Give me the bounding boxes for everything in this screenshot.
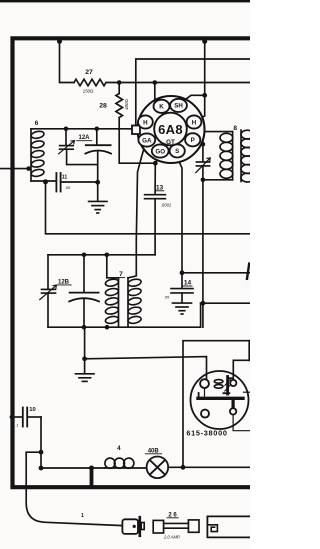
wire: coil top bus to grid cap xyxy=(31,128,132,130)
tube pin K xyxy=(154,100,170,113)
svg-text:SH: SH xyxy=(174,103,183,110)
wire: heater feed from frame xyxy=(204,40,206,95)
wire: antenna tap from left edge xyxy=(0,168,29,170)
svg-text:K: K xyxy=(159,104,164,111)
contact bar xyxy=(198,397,243,400)
pin labels xyxy=(142,103,197,156)
fuse F1 (26, 2.0 AMP) xyxy=(153,520,199,533)
wire: grid-cap line (to right edge) xyxy=(136,59,250,126)
bus: thick chassis frame (B+/heater bus) xyxy=(13,38,251,487)
tube pin SH xyxy=(170,99,187,112)
resistor R28 xyxy=(116,83,123,118)
contact bracket xyxy=(223,377,232,395)
connector: line cord plug xyxy=(122,517,144,536)
svg-text:P: P xyxy=(191,137,195,144)
node: connection tick at right edge xyxy=(247,264,249,279)
wire: oscillator bottom bus xyxy=(48,303,201,327)
wire: coil bottom to C11 xyxy=(31,180,56,182)
resistor R27 (27, 150 ohm) xyxy=(74,79,119,86)
node: C10 at chassis frame xyxy=(10,415,14,419)
IF transformer T8 secondary xyxy=(241,130,254,182)
svg-text:27: 27 xyxy=(85,69,93,76)
tube inner circle xyxy=(154,113,187,146)
ground (osc bus) xyxy=(76,359,95,382)
svg-text:6: 6 xyxy=(35,120,39,127)
wire: GA pin to oscillator coil xyxy=(136,146,145,276)
svg-text:10: 10 xyxy=(29,407,35,413)
tube pin H right xyxy=(187,115,202,128)
svg-text:8: 8 xyxy=(233,125,237,132)
tube pin H left xyxy=(138,115,153,128)
svg-text:H: H xyxy=(143,119,148,126)
coil (osc unit) xyxy=(214,380,223,384)
variable capacitor: tuning gang section A xyxy=(85,129,111,183)
tube pin GA xyxy=(138,133,155,146)
svg-text:.05: .05 xyxy=(65,185,71,190)
capacitor C10 xyxy=(12,408,41,427)
svg-text:1: 1 xyxy=(81,513,84,519)
wire: lamp to right edge xyxy=(168,466,250,468)
wire: right edge link xyxy=(248,341,250,361)
svg-text:.05: .05 xyxy=(164,295,170,300)
wire: screen feed to right edge xyxy=(201,302,250,304)
IF transformer T8 primary xyxy=(203,132,233,180)
svg-text:4: 4 xyxy=(117,445,121,452)
socket unit 615-38000 outline xyxy=(191,371,249,429)
inductor L7 oscillator coil (left winding) xyxy=(105,255,119,327)
svg-text:615-38000: 615-38000 xyxy=(186,429,227,438)
inductor L7 oscillator coil (right winding) xyxy=(127,276,141,327)
capacitor C13 (.0001) xyxy=(145,195,166,255)
svg-text:GO: GO xyxy=(155,148,165,155)
wire: to H pin (right) xyxy=(199,95,205,119)
socket pin C xyxy=(230,408,236,414)
wire: line cord lead xyxy=(26,452,122,525)
trimmer capacitor C12A xyxy=(59,129,98,165)
wire: C10 to heater line xyxy=(40,417,42,468)
svg-text:H: H xyxy=(192,119,197,126)
wire: socket stub right xyxy=(244,391,251,393)
tube pin GO xyxy=(152,144,169,157)
capacitor C11 (.05) xyxy=(56,173,97,192)
wire: thick stub to chassis frame xyxy=(90,468,94,487)
svg-text:GA: GA xyxy=(142,137,152,144)
wire: grid line to K pin xyxy=(155,83,158,103)
svg-text:28: 28 xyxy=(99,103,107,110)
wire: top page edge xyxy=(0,0,250,2)
svg-text:6A8: 6A8 xyxy=(158,122,183,137)
svg-text:13: 13 xyxy=(156,184,164,191)
wire: to SH pin xyxy=(183,95,205,101)
wire: right edge down to lamp line xyxy=(183,341,250,468)
wire: choke to lamp xyxy=(105,467,147,469)
svg-text:11: 11 xyxy=(62,175,68,181)
socket pin D xyxy=(201,410,209,418)
inductor L4 (hash choke) xyxy=(105,458,134,468)
ground (C14) xyxy=(173,303,192,314)
wire: right edge into socket pin B xyxy=(233,360,250,380)
capacitor C14 (.05) xyxy=(171,273,193,303)
trimmer capacitor C12B (padder) xyxy=(40,255,57,327)
wire: P pin to IFT xyxy=(199,141,203,143)
wire: R28 bottom to GO lead xyxy=(119,118,155,164)
tube pin S xyxy=(170,144,185,157)
svg-text:.0001: .0001 xyxy=(161,203,171,208)
ground (tuned circuit) xyxy=(89,182,107,213)
svg-text:S: S xyxy=(175,148,179,155)
wire: mixer grid line to right edge xyxy=(119,82,250,84)
svg-text:.1: .1 xyxy=(15,423,18,428)
wire: socket pin C to right edge xyxy=(233,415,250,431)
svg-text:400Ω: 400Ω xyxy=(124,99,129,110)
wire: ground node to socket unit xyxy=(85,357,207,379)
lamp 40B (pilot light) xyxy=(147,457,169,479)
wire: heater line to choke xyxy=(41,467,105,469)
tube V1 6A8 envelope xyxy=(138,96,205,163)
variable capacitor: tuning gang section B xyxy=(69,255,99,327)
wire: GO pin to C13 xyxy=(155,157,159,195)
svg-text:12A: 12A xyxy=(78,135,90,141)
wire: osc bus ground tap xyxy=(84,327,86,359)
wire: S pin (screen) lead xyxy=(177,157,182,273)
contact post xyxy=(232,400,235,408)
svg-text:GT: GT xyxy=(166,139,175,146)
connector: interlock receptacle xyxy=(207,516,250,537)
socket pin A xyxy=(200,379,209,388)
wire: screen bypass node to right edge xyxy=(182,272,250,274)
svg-text:150Ω: 150Ω xyxy=(83,89,94,94)
trimmer capacitor (IFT primary) xyxy=(196,132,210,328)
wire: border to R27 xyxy=(60,40,75,82)
tube pin P xyxy=(185,133,200,146)
grid cap terminal xyxy=(132,126,140,135)
wire: AVC bus (C11 node down and right) xyxy=(46,182,251,234)
svg-text:2.0 AMP.: 2.0 AMP. xyxy=(163,535,181,540)
wire: oscillator grid bus xyxy=(48,254,155,256)
socket pin B xyxy=(230,380,236,386)
inductor L6 antenna coil xyxy=(31,129,45,181)
